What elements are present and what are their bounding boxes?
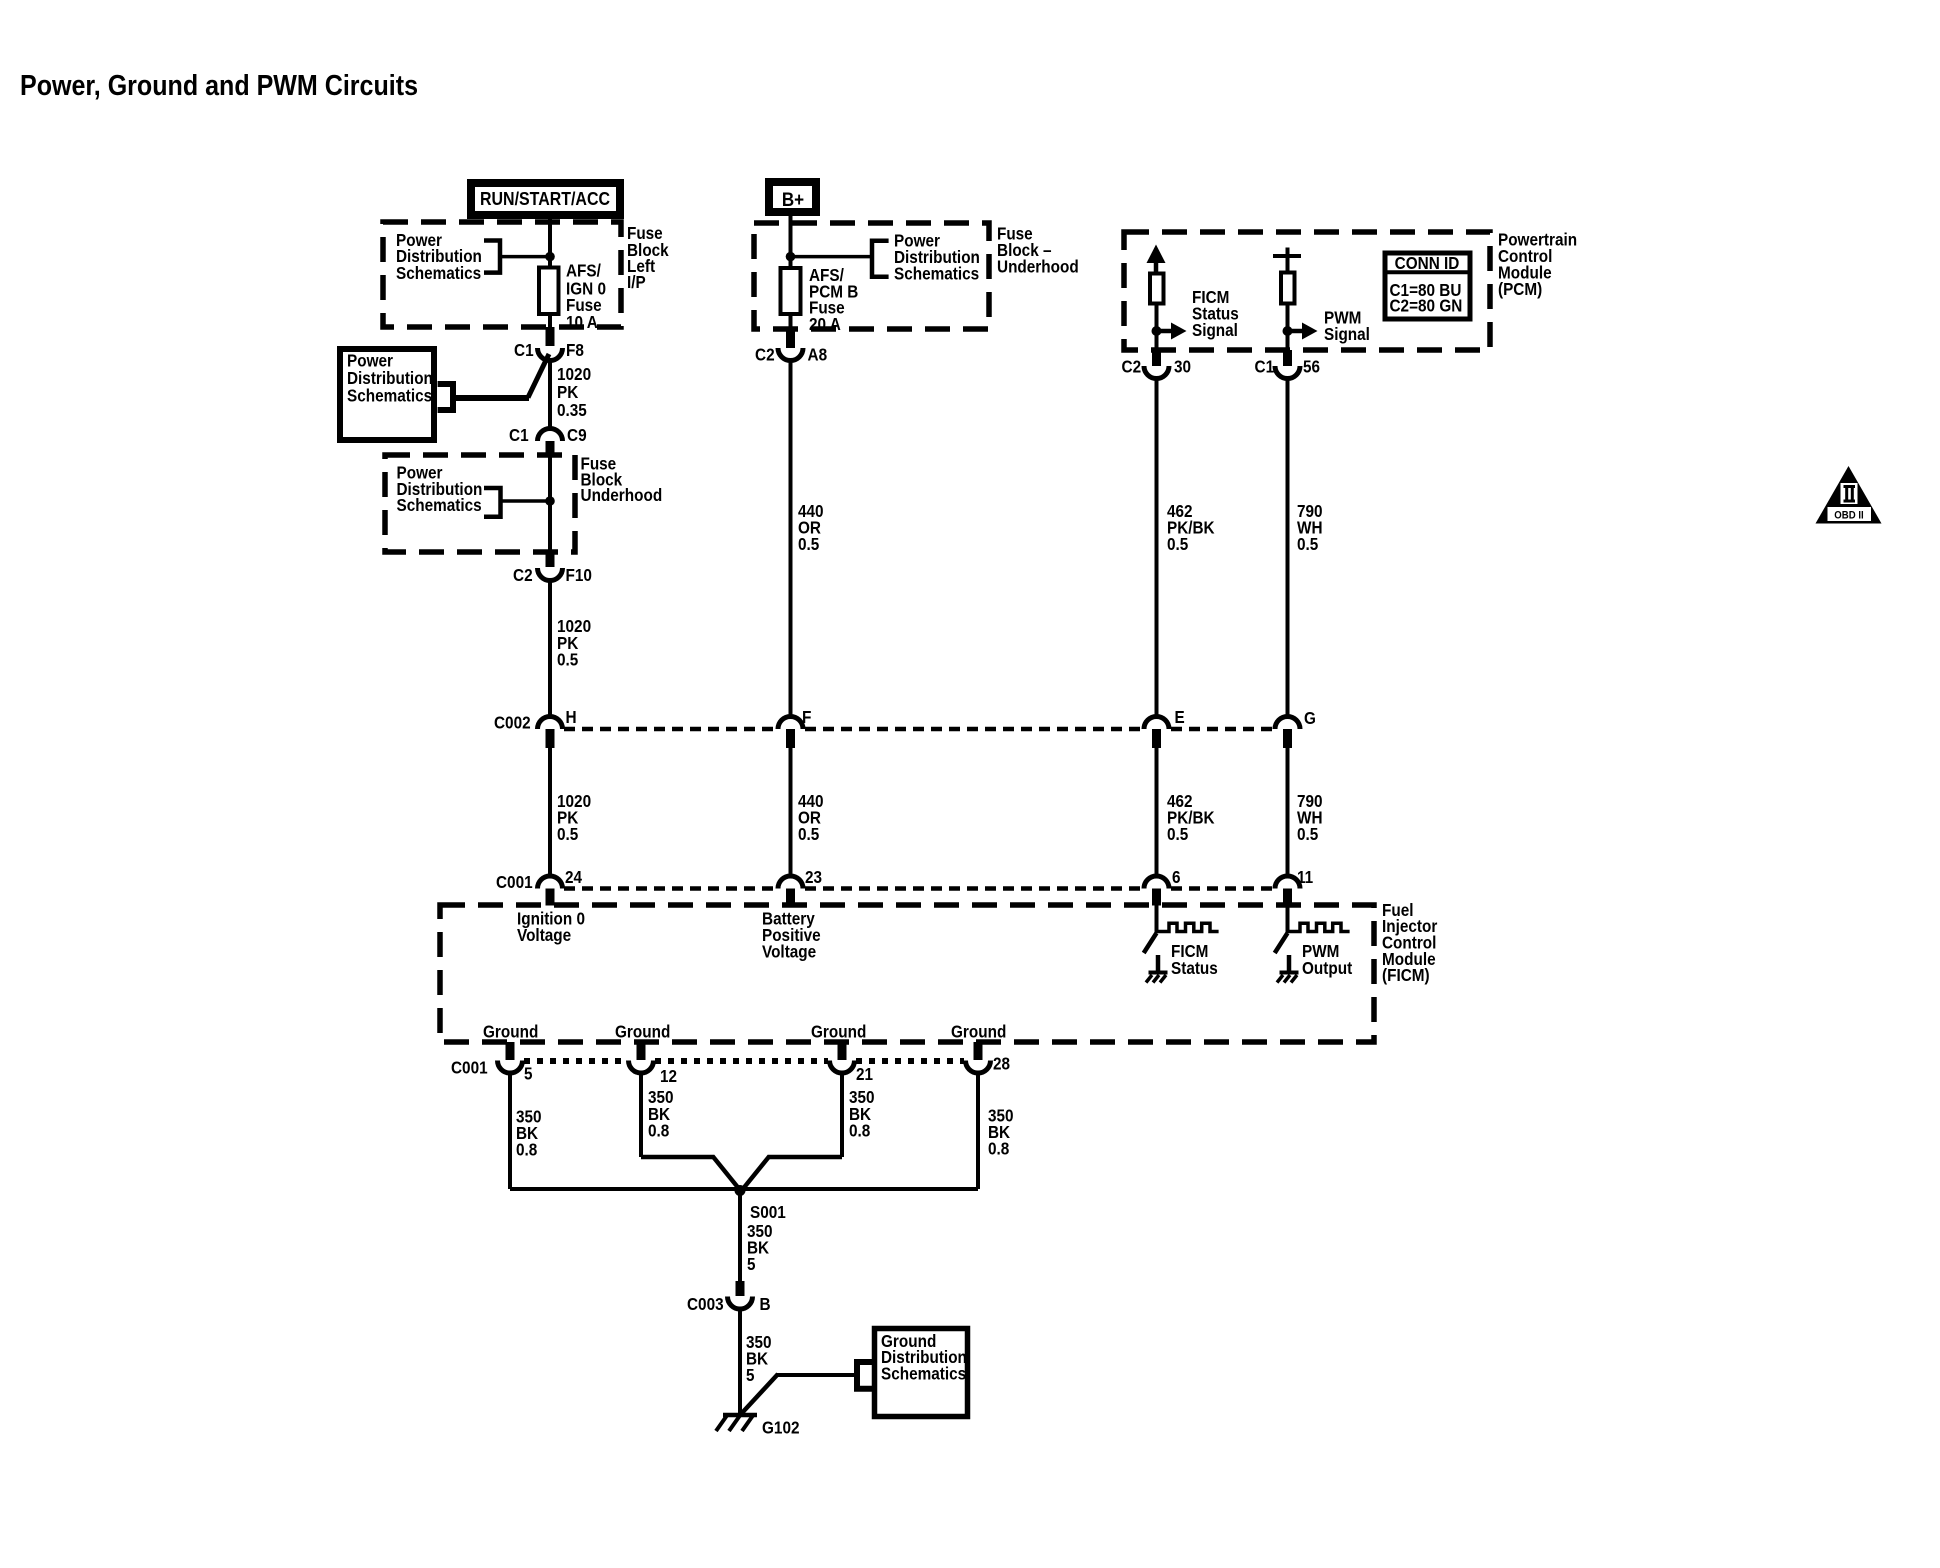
svg-text:20 A: 20 A (809, 314, 841, 334)
connector C002 E (1144, 717, 1169, 730)
connector C002 F (778, 717, 803, 730)
svg-text:C9: C9 (567, 425, 587, 445)
svg-text:AFS/: AFS/ (566, 261, 601, 281)
connector C003 B (728, 1297, 753, 1310)
svg-text:Power, Ground and PWM Circuits: Power, Ground and PWM Circuits (20, 70, 418, 102)
svg-text:0.8: 0.8 (516, 1140, 538, 1160)
resistor element (1281, 273, 1295, 304)
svg-text:Schematics: Schematics (881, 1364, 966, 1384)
label Fuel Injector Control Module (FICM) (1382, 900, 1437, 985)
wire resistor to box edge (1155, 303, 1159, 350)
wire pin21 to splice (768, 1155, 842, 1160)
wire 440 OR 0.5 upper (789, 359, 793, 717)
svg-text:G102: G102 (762, 1418, 800, 1438)
label PWM Output (1302, 941, 1352, 978)
pin stub 12 (637, 1042, 646, 1060)
connector C001 6 (1144, 876, 1169, 889)
svg-text:Signal: Signal (1324, 324, 1370, 344)
dashed connector line C001 (564, 886, 776, 891)
node junction (545, 252, 555, 262)
wire bracket to junction (500, 255, 550, 259)
svg-text:0.5: 0.5 (1297, 824, 1319, 844)
svg-text:21: 21 (856, 1064, 873, 1084)
pin stub F8 (546, 327, 555, 346)
svg-text:B+: B+ (782, 189, 804, 211)
connector C002 G (1275, 717, 1300, 730)
svg-text:5: 5 (524, 1064, 533, 1084)
connector C001 5 (498, 1061, 523, 1074)
svg-text:0.5: 0.5 (798, 534, 820, 554)
svg-text:Output: Output (1302, 958, 1352, 978)
pin stub 28 (974, 1042, 983, 1060)
pin stub C9 (546, 441, 555, 457)
wire junction to bracket (791, 255, 873, 259)
label Power Distribution Schematics (battery) (894, 231, 980, 284)
powertrain control module PCM (dashed box) (1124, 232, 1490, 350)
pin stub 30 (1152, 350, 1161, 366)
label Fuse Block Underhood (581, 454, 663, 506)
svg-text:11: 11 (1297, 867, 1313, 887)
wire RUN/START/ACC down to fuse (548, 215, 552, 268)
svg-text:OBD II: OBD II (1834, 510, 1863, 522)
svg-text:C2: C2 (513, 565, 533, 585)
wire fuse to box edge (789, 314, 793, 329)
svg-text:Schematics: Schematics (397, 495, 482, 515)
svg-text:H: H (566, 707, 577, 727)
dotted connector line C001 grounds (524, 1058, 627, 1064)
svg-text:Schematics: Schematics (347, 386, 432, 406)
label Power Distribution Schematics (fuse block left) (396, 230, 482, 283)
svg-text:(PCM): (PCM) (1498, 279, 1542, 299)
wire ground bus horizontal (510, 1187, 978, 1191)
svg-text:12: 12 (660, 1066, 677, 1086)
svg-text:28: 28 (993, 1054, 1010, 1074)
connector C001 11 (1275, 876, 1300, 889)
wire 350 BK 0.8 pin21 (840, 1072, 844, 1157)
svg-text:PK: PK (557, 382, 579, 402)
svg-text:Underhood: Underhood (581, 485, 663, 505)
FICM status driver: wire, square wave, switch, ground (1144, 905, 1219, 983)
svg-text:5: 5 (747, 1254, 756, 1274)
node junction (545, 496, 555, 506)
wire arrow to resistor (1154, 262, 1159, 274)
label Battery Positive Voltage (762, 909, 821, 962)
connector C1 56 (1275, 366, 1300, 379)
svg-text:Schematics: Schematics (396, 263, 481, 283)
wire diagonal to connector (528, 354, 549, 398)
connector C001 21 (830, 1061, 855, 1074)
label 1020 PK 0.5 (557, 616, 591, 670)
svg-text:C1: C1 (509, 425, 529, 445)
label FICM Status (1171, 941, 1218, 978)
svg-text:S001: S001 (750, 1202, 786, 1222)
connector C1 C9 (538, 429, 563, 442)
connector C001 12 (629, 1061, 654, 1074)
svg-text:Underhood: Underhood (997, 257, 1079, 277)
bracket from solid box (438, 384, 453, 410)
connector C1 F8 (538, 348, 563, 361)
svg-text:0.5: 0.5 (557, 650, 579, 670)
svg-text:24: 24 (565, 867, 582, 887)
node junction with arrow (1283, 326, 1293, 336)
pin stub E (1152, 729, 1161, 748)
connector C2 30 (1144, 366, 1169, 379)
svg-text:CONN ID: CONN ID (1395, 253, 1460, 273)
svg-text:5: 5 (746, 1365, 755, 1385)
wire B+ down to fuse (789, 212, 793, 268)
label Fuse Block - Underhood (997, 224, 1079, 277)
wire pin12 to splice (641, 1155, 714, 1160)
label 462 PK/BK 0.5 (1167, 501, 1215, 554)
wire 1020 PK 0.5 upper (548, 579, 552, 717)
label Power Distribution Schematics (underhood) (397, 463, 483, 516)
connector C001 23 (778, 876, 803, 889)
bracket to Power Distribution Schematics (872, 241, 889, 277)
fuse block left I/P (dashed box) (383, 222, 621, 327)
svg-text:E: E (1175, 707, 1185, 727)
svg-text:F: F (802, 707, 812, 727)
wire cap (PWM signal source) (1273, 254, 1301, 258)
label FICM Status Signal (1192, 287, 1239, 340)
label AFS/PCM B Fuse 20 A (809, 265, 858, 334)
svg-text:F10: F10 (566, 565, 593, 585)
label 1020 PK 0.35 (557, 364, 591, 420)
svg-text:0.8: 0.8 (648, 1121, 670, 1141)
svg-text:Signal: Signal (1192, 320, 1238, 340)
svg-text:0.5: 0.5 (557, 824, 579, 844)
wire from bracket (453, 395, 529, 401)
label Powertrain Control Module (PCM) (1498, 230, 1577, 300)
wire 1020 PK 0.5 lower (548, 748, 552, 877)
node junction with arrow (1152, 326, 1162, 336)
label Ignition 0 Voltage (517, 909, 585, 946)
svg-text:C1: C1 (1255, 357, 1275, 377)
wire cap to resistor (1286, 256, 1290, 273)
battery feed: fuse block - underhood (dashed box) (754, 223, 989, 329)
svg-text:23: 23 (805, 867, 822, 887)
svg-text:30: 30 (1174, 357, 1191, 377)
wire 790 WH 0.5 upper (1286, 377, 1290, 717)
wire through underhood box (548, 457, 552, 552)
connector C001 24 (538, 876, 563, 889)
OBD II symbol (1816, 466, 1882, 524)
arrow up (FICM status signal source) (1147, 245, 1166, 264)
fuse AFS/PCM B Fuse 20 A (781, 268, 801, 314)
wire 1020 PK 0.35 (548, 359, 552, 430)
bracket to Power Distribution Schematics (484, 241, 500, 273)
label AFS/IGN 0 Fuse 10 A (566, 261, 606, 333)
label 790 WH 0.5 (1297, 501, 1323, 554)
svg-text:10 A: 10 A (566, 312, 598, 332)
label PWM Signal (1324, 308, 1370, 345)
svg-text:C2: C2 (755, 345, 775, 365)
connector C2 F10 (538, 568, 563, 581)
label 440 OR 0.5 (798, 501, 824, 554)
wire 440 OR 0.5 lower (789, 748, 793, 877)
splice S001 (735, 1185, 746, 1196)
svg-text:(FICM): (FICM) (1382, 965, 1430, 985)
node junction (786, 252, 796, 262)
svg-text:Ground: Ground (483, 1022, 538, 1042)
svg-text:Voltage: Voltage (517, 925, 571, 945)
PWM output driver: wire, square wave, switch, ground (1275, 905, 1350, 983)
svg-text:A8: A8 (808, 345, 828, 365)
svg-text:0.35: 0.35 (557, 400, 587, 420)
node RUN/START/ACC (471, 183, 620, 215)
resistor element (1150, 274, 1164, 304)
pin stub B (736, 1281, 745, 1296)
pin stub H (546, 729, 555, 748)
bracket to Power Distribution Schematics (484, 488, 501, 517)
wire bracket to junction (501, 499, 551, 503)
wire 350 BK 0.8 pin12 (639, 1072, 643, 1157)
svg-text:0.5: 0.5 (1167, 534, 1189, 554)
wire 350 BK 5 lower (738, 1308, 742, 1414)
wire fuse to box edge (548, 314, 552, 327)
box Ground Distribution Schematics (875, 1329, 968, 1417)
wire 350 BK 0.8 pin28 (976, 1072, 980, 1189)
svg-text:C1: C1 (514, 340, 534, 360)
wire 350 BK 5 upper (738, 1190, 742, 1281)
ground G102 (716, 1414, 757, 1431)
wire resistor to box edge (1286, 303, 1290, 350)
bracket to Ground Distribution Schematics (857, 1362, 872, 1389)
svg-text:C002: C002 (494, 713, 531, 733)
connector C002 H (538, 717, 563, 730)
wire 462 PK/BK 0.5 upper (1155, 377, 1159, 717)
svg-text:Ground: Ground (951, 1022, 1006, 1042)
pin stub F10 (546, 552, 555, 567)
svg-text:Voltage: Voltage (762, 942, 816, 962)
wire 350 BK 0.8 pin5 (508, 1072, 512, 1189)
svg-text:C001: C001 (496, 872, 533, 892)
svg-text:0.5: 0.5 (798, 824, 820, 844)
CONN ID table (1383, 253, 1473, 319)
fuse block underhood (dashed box) (385, 455, 575, 552)
label Fuse Block Left I/P (627, 223, 669, 292)
svg-text:56: 56 (1303, 357, 1320, 377)
wire to ground distribution (777, 1373, 858, 1377)
svg-text:Ground: Ground (811, 1022, 866, 1042)
node B+ (769, 182, 816, 212)
pin stub A8 (786, 329, 795, 348)
svg-text:F8: F8 (566, 340, 584, 360)
fuel injector control module FICM (dashed box) (440, 905, 1374, 1042)
pin stub F (786, 729, 795, 748)
svg-text:C2: C2 (1122, 357, 1142, 377)
svg-text:0.8: 0.8 (849, 1121, 871, 1141)
svg-text:C001: C001 (451, 1058, 488, 1078)
connector C2 A8 (778, 348, 803, 361)
svg-text:Ground: Ground (615, 1022, 670, 1042)
pin stub 21 (838, 1042, 847, 1060)
svg-text:Schematics: Schematics (894, 264, 979, 284)
dashed connector line C002 (564, 727, 776, 732)
svg-text:C2=80 GN: C2=80 GN (1390, 296, 1463, 316)
svg-text:RUN/START/ACC: RUN/START/ACC (480, 189, 610, 209)
svg-text:1020: 1020 (557, 364, 591, 384)
pin stub 56 (1283, 350, 1292, 366)
fuse AFS/IGN 0 Fuse 10 A (539, 268, 559, 315)
wire 790 WH 0.5 lower (1286, 748, 1290, 877)
box Power Distribution Schematics (solid) (340, 349, 434, 440)
svg-text:0.5: 0.5 (1167, 824, 1189, 844)
svg-text:Status: Status (1171, 958, 1218, 978)
wire 462 PK/BK 0.5 lower (1155, 748, 1159, 877)
svg-text:I/P: I/P (627, 272, 646, 292)
pin stub 5 (506, 1042, 515, 1060)
svg-text:B: B (760, 1294, 771, 1314)
svg-text:6: 6 (1172, 867, 1181, 887)
svg-text:0.5: 0.5 (1297, 534, 1319, 554)
svg-text:0.8: 0.8 (988, 1139, 1010, 1159)
svg-text:C003: C003 (687, 1294, 724, 1314)
svg-text:G: G (1304, 708, 1316, 728)
connector C001 28 (966, 1061, 991, 1074)
pin stub G (1283, 729, 1292, 748)
